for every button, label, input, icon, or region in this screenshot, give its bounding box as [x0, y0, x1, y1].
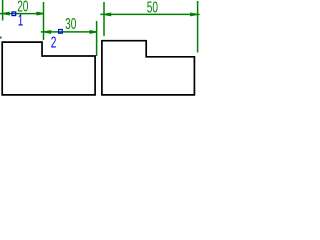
dimension D1 grip square [12, 12, 16, 16]
dimension D3 extension line 2 (x=197.4) [197, 1, 199, 53]
svg-text:50: 50 [147, 0, 158, 16]
dimension D1 right arrowhead [36, 12, 43, 16]
dimension D1 left arrowhead [3, 12, 10, 16]
dimension D2 grip square [59, 30, 63, 34]
dimension D1 extension line 1 (x=2.6) [2, 0, 4, 21]
dimension D1 dimension line y=13.6 [0, 13, 44, 15]
dimension D3 dimension line y=14.4 [100, 13, 199, 15]
dimension D2 dimension line y=31.9 [41, 31, 97, 33]
part outline right (step shape) [102, 41, 194, 95]
dimension D1/D2 shared extension line (x=43.4) [43, 2, 45, 40]
part outline left (step shape) [2, 42, 95, 95]
dimension D3 left arrowhead [104, 12, 111, 16]
dimension D1 extension line stub near part corner [0, 37, 2, 39]
svg-text:30: 30 [65, 15, 76, 33]
dimension D2 left arrowhead [44, 30, 51, 34]
svg-text:1: 1 [18, 11, 24, 29]
dimension D3 right arrowhead [190, 12, 197, 16]
svg-text:2: 2 [51, 33, 57, 51]
dimension D2 extension line 2 (x=96.6) [96, 21, 98, 56]
dimension D3 extension line 1 (x=104) [103, 2, 105, 36]
dimension D2 right arrowhead [90, 30, 97, 34]
